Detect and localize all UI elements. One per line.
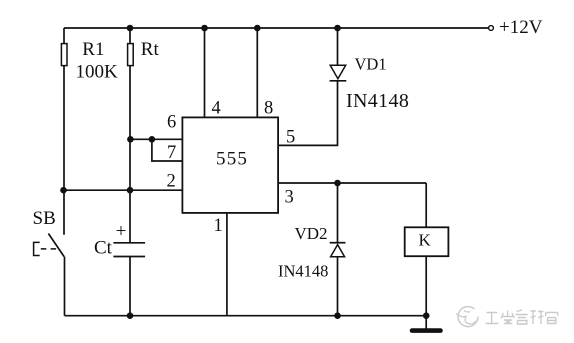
node pin2 junction at Rt branch: [127, 187, 134, 194]
node top rail junction at VD1: [334, 25, 341, 32]
diode VD2: [337, 183, 339, 243]
wire pin6: [130, 138, 182, 140]
node pin2 junction at left rail: [60, 187, 67, 194]
svg-text:1: 1: [214, 216, 223, 236]
svg-text:IN4148: IN4148: [278, 262, 328, 281]
svg-text:8: 8: [264, 99, 273, 119]
wire pin8 branch: [256, 28, 258, 117]
node top rail junction at pin4: [201, 25, 208, 32]
wire pin4 branch: [204, 28, 206, 117]
svg-text:VD2: VD2: [295, 224, 328, 243]
op-amp U1 555 timer box: [182, 117, 278, 212]
svg-text:4: 4: [212, 99, 221, 119]
node bottom rail junction at Ct: [127, 312, 134, 319]
resistor R1: [61, 44, 67, 66]
resistor Rt: [128, 44, 134, 66]
svg-text:2: 2: [167, 172, 176, 192]
svg-text:555: 555: [216, 149, 248, 170]
relay K wire from pin3: [425, 183, 427, 227]
wire SB bottom: [64, 257, 66, 316]
wire pin7: [152, 139, 183, 161]
wire left rail middle (R1 to SB): [63, 66, 65, 235]
svg-text:VD1: VD1: [355, 55, 387, 74]
wire left rail upper (top corner to R1): [63, 28, 65, 44]
wire pin3: [278, 182, 426, 184]
svg-text:Ct: Ct: [94, 238, 113, 259]
wire Rt branch top: [129, 28, 131, 44]
node pin6 junction at pin7: [149, 136, 156, 143]
watermark logo bird circle: [456, 307, 478, 327]
node pin3 junction at VD2: [334, 180, 341, 187]
svg-text:R1: R1: [82, 39, 104, 60]
svg-text:6: 6: [167, 113, 176, 133]
node bottom rail junction at VD2: [334, 312, 341, 319]
ground: [425, 316, 427, 329]
node top rail junction at Rt: [127, 25, 134, 32]
wire pin1: [226, 213, 228, 316]
wire pin5: [278, 81, 338, 145]
relay K box: [405, 227, 449, 256]
wire bottom rail: [65, 315, 427, 317]
diode VD1: [337, 28, 339, 65]
svg-text:SB: SB: [33, 208, 56, 229]
svg-text:+12V: +12V: [499, 17, 543, 38]
node pin6 junction at Rt: [127, 136, 134, 143]
wire pin2: [64, 189, 182, 191]
wire Ct bottom: [129, 257, 131, 316]
svg-text:100K: 100K: [76, 61, 119, 82]
watermark text 工控资料窝: [486, 310, 558, 324]
node top rail junction at pin8: [254, 25, 261, 32]
switch SB blade: [48, 234, 64, 257]
svg-text:Rt: Rt: [141, 39, 160, 60]
wire Rt branch down to pin6 node and pin2 node and Ct: [129, 66, 131, 243]
switch SB actuator bracket: [34, 242, 40, 255]
wire top supply rail: [64, 27, 488, 29]
wire K to ground rail: [425, 256, 427, 316]
node bottom rail junction at ground: [423, 312, 430, 319]
svg-text:+: +: [116, 221, 127, 242]
svg-text:7: 7: [167, 143, 176, 163]
svg-text:IN4148: IN4148: [346, 90, 409, 112]
svg-text:5: 5: [286, 128, 295, 148]
terminal +12V open circle: [489, 26, 494, 31]
switch SB dashed linkage: [41, 248, 56, 250]
svg-text:K: K: [419, 231, 432, 250]
capacitor Ct plates: [113, 242, 145, 244]
svg-text:3: 3: [285, 188, 294, 208]
